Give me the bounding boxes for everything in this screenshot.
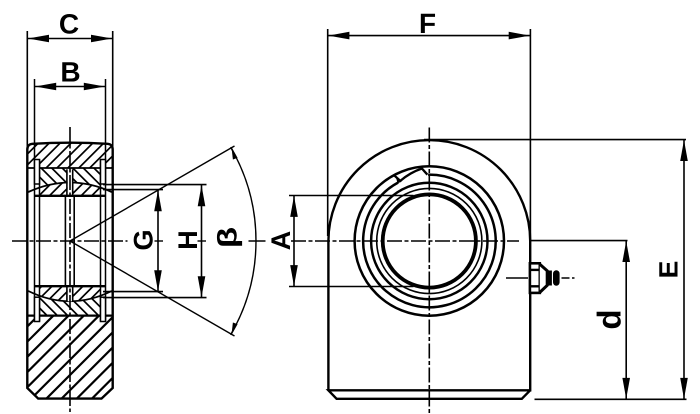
inner ring side line left (B extension) <box>34 79 36 322</box>
left view vertical center line <box>69 127 71 412</box>
retaining ring step tab <box>396 176 402 183</box>
ball bore top edge <box>35 195 106 197</box>
d top extension line <box>529 240 628 242</box>
right view body outline <box>328 140 530 399</box>
retaining groove top-right <box>101 160 106 185</box>
inner ring side line right (B extension) <box>105 79 107 322</box>
label C <box>60 14 78 34</box>
grease nipple neck <box>548 271 552 286</box>
housing bore line top <box>28 167 111 169</box>
lube hole upper (white channel + edges) <box>68 169 72 196</box>
label E <box>659 262 677 277</box>
dimension E line with arrows <box>683 140 685 400</box>
housing top section hatch (left view) <box>1 140 162 170</box>
retaining groove top-left <box>35 160 40 185</box>
dimension G line with arrows <box>157 190 159 291</box>
dimension F line with arrows <box>328 35 531 37</box>
ball chamfer circle <box>377 188 482 293</box>
label H <box>178 232 197 248</box>
retaining groove bottom-left <box>35 297 40 321</box>
dimension F extension lines <box>327 29 329 236</box>
center line tick at G line <box>155 240 164 242</box>
center line tick at H line <box>198 240 207 242</box>
lube groove in bore <box>64 196 66 286</box>
dimension G extension lines <box>103 189 163 191</box>
right view vertical center line <box>428 128 430 414</box>
E top extension line <box>424 139 686 141</box>
beta dimension arc <box>231 147 256 335</box>
bottom extension line for d and E <box>535 398 687 400</box>
ball side face line right <box>100 160 102 322</box>
left view horizontal center line <box>12 240 128 242</box>
ball upper section hatch <box>16 176 133 198</box>
ball bore bottom edge <box>35 285 106 287</box>
outer ring inner circle <box>371 183 487 299</box>
label F <box>421 14 435 33</box>
grease nipple cone <box>540 264 547 292</box>
bearing ring lower section hatch <box>13 292 132 318</box>
ball side face line left <box>39 160 41 322</box>
housing bore circle <box>355 166 504 315</box>
dimension A line with arrows <box>293 196 295 287</box>
dimension H extension lines <box>103 184 207 186</box>
label G <box>134 231 153 249</box>
beta angle ray upper <box>70 146 235 241</box>
sphere lower arc <box>28 291 111 301</box>
shank top line <box>27 315 112 317</box>
retaining ring circle with gap <box>363 175 496 308</box>
grease nipple center line <box>506 277 528 279</box>
retaining ring step and lifted end <box>394 169 427 181</box>
grease nipple head <box>553 270 560 285</box>
lube hole lower (white channel + edges) <box>68 286 72 301</box>
label B <box>62 62 79 81</box>
label beta <box>217 228 242 246</box>
retaining groove bottom-right <box>101 297 106 321</box>
ball lower section hatch <box>12 284 127 306</box>
dimension H line with arrows <box>201 185 203 297</box>
dimension A extension lines <box>289 195 414 197</box>
bearing ring upper section hatch <box>7 166 137 190</box>
grease nipple base <box>530 263 540 293</box>
sphere upper arc <box>28 183 111 193</box>
label d <box>597 312 621 329</box>
label A <box>271 231 290 249</box>
beta angle ray lower <box>70 241 235 336</box>
left view body outline <box>27 143 112 399</box>
right view horizontal center line <box>249 240 266 242</box>
bore circle <box>383 194 476 287</box>
dimension B line with arrows <box>35 86 106 88</box>
dimension C line with arrows <box>27 38 112 40</box>
shank section hatch <box>0 314 207 400</box>
dimension d line with arrows <box>625 241 627 400</box>
dimension C extension lines <box>26 31 28 153</box>
